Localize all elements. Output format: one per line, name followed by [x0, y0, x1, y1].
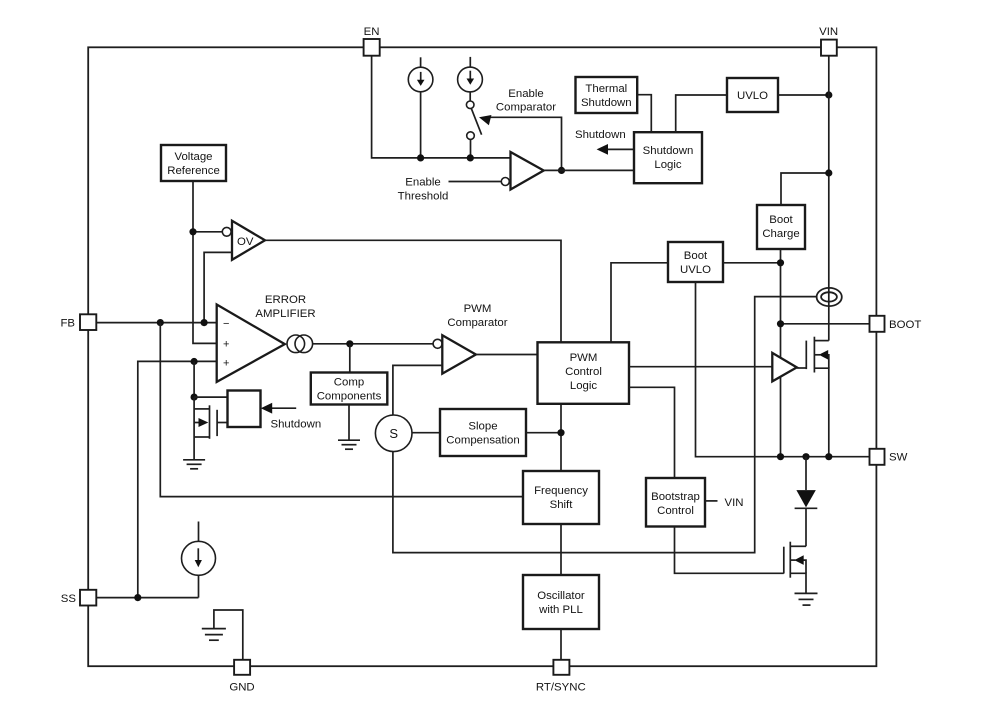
wire bootstrap VIN stub	[705, 500, 718, 502]
svg-text:UVLO: UVLO	[680, 264, 711, 276]
gate driver U4	[772, 353, 797, 382]
thermal shutdown block	[576, 77, 638, 113]
wire S to slope compensation	[412, 432, 440, 434]
svg-text:Charge: Charge	[762, 228, 799, 240]
wire SS current source bottom	[198, 575, 200, 597]
svg-text:Bootstrap: Bootstrap	[651, 491, 700, 503]
label PWM Comparator	[447, 303, 507, 329]
wire boot uvlo to pwm control logic	[611, 263, 668, 343]
wire SS rail to error amp input	[138, 361, 217, 597]
wire SS current source top stub	[198, 522, 200, 542]
switch below I2	[466, 92, 481, 158]
svg-text:Enable: Enable	[508, 88, 543, 100]
wire boot charge top to VIN rail	[781, 173, 829, 205]
wire current source I1 top stub	[420, 57, 422, 67]
svg-text:EN: EN	[364, 26, 380, 38]
wire error amp output to pwm comparator	[313, 343, 434, 345]
svg-text:Comparator: Comparator	[447, 317, 507, 329]
svg-text:RT/SYNC: RT/SYNC	[536, 681, 586, 693]
svg-text:Comparator: Comparator	[496, 101, 556, 113]
wire current source I1 to enable node	[420, 92, 422, 158]
node discharge tap	[191, 394, 198, 401]
wire discharge node to ground	[193, 397, 195, 460]
svg-text:GND: GND	[229, 682, 254, 694]
node enable comparator output	[558, 167, 565, 174]
current source I1	[408, 67, 433, 92]
svg-text:Boot: Boot	[684, 250, 708, 262]
wire boot uvlo down to SW line	[696, 282, 870, 457]
wire UVLO to VIN rail	[778, 94, 829, 96]
node FB freq shift tap	[157, 319, 164, 326]
svg-text:Shutdown: Shutdown	[643, 145, 694, 157]
pin SW	[870, 449, 885, 465]
ground below discharge transistor	[183, 460, 205, 469]
UVLO block	[727, 78, 778, 112]
ground at GND pin	[202, 629, 226, 641]
IC boundary rectangle	[88, 47, 876, 666]
svg-text:Boot: Boot	[769, 214, 793, 226]
svg-text:OV: OV	[237, 236, 254, 248]
svg-text:Enable: Enable	[405, 177, 440, 189]
wire GND pin to ground symbol	[214, 610, 243, 660]
label Enable Comparator	[496, 88, 556, 114]
summing node S	[375, 415, 412, 452]
pin BOOT	[870, 316, 885, 332]
pin EN	[364, 39, 380, 56]
pin RT/SYNC	[553, 660, 569, 675]
node SS pin rail	[134, 594, 141, 601]
wire OV lower input to FB	[204, 252, 232, 322]
svg-text:Control: Control	[565, 366, 602, 378]
node comp components tap	[346, 340, 353, 347]
wire SS tap down to discharge box	[193, 362, 195, 398]
svg-text:Control: Control	[657, 505, 694, 517]
wire S to pwm comparator lower input	[393, 365, 442, 415]
wire shutdown arrow into box	[261, 403, 296, 414]
pin VIN	[821, 40, 837, 56]
wire enable comparator output to shutdown logic	[544, 169, 634, 171]
wire EN pin to enable node	[372, 56, 511, 158]
wire pwm control logic to bootstrap control	[629, 387, 675, 478]
wire oscillator to RT pin	[560, 629, 562, 660]
svg-text:S: S	[389, 426, 398, 441]
comparator U3 PWM	[433, 335, 476, 373]
comp components block	[311, 373, 388, 405]
svg-text:Slope: Slope	[468, 421, 497, 433]
wire OV output to pwm control logic	[265, 240, 561, 342]
node slope comp junction	[557, 429, 564, 436]
node SW diode	[802, 453, 809, 460]
svg-text:Comp: Comp	[334, 377, 364, 389]
oscillator with PLL block	[523, 575, 599, 629]
op-amp U1 error amplifier	[217, 305, 285, 382]
shutdown control box	[228, 391, 261, 428]
node SW sense rail	[825, 453, 832, 460]
slope compensation block	[440, 409, 526, 456]
boot charge block	[757, 205, 805, 249]
wire FB to frequency shift	[160, 323, 523, 497]
svg-text:Oscillator: Oscillator	[537, 590, 585, 602]
comparator OV	[222, 221, 265, 260]
wire pwm control logic to frequency shift	[560, 405, 562, 471]
svg-text:PWM: PWM	[570, 352, 598, 364]
transistor Q3 low side	[784, 542, 806, 594]
svg-text:Shutdown: Shutdown	[581, 97, 632, 109]
transconductance symbol error amp output	[287, 335, 313, 353]
svg-text:Thermal: Thermal	[585, 83, 627, 95]
node switch	[467, 154, 474, 161]
svg-text:SS: SS	[61, 593, 77, 605]
svg-text:Logic: Logic	[570, 380, 598, 392]
label Enable Threshold	[398, 177, 449, 203]
svg-text:UVLO: UVLO	[737, 90, 768, 102]
ground below low side transistor	[795, 593, 818, 605]
svg-text:Logic: Logic	[654, 159, 682, 171]
svg-text:Shift: Shift	[550, 499, 574, 511]
pin SS	[80, 590, 96, 606]
current source I3 soft start	[182, 541, 216, 575]
svg-text:PWM: PWM	[464, 303, 492, 315]
svg-text:FB: FB	[60, 317, 75, 329]
boot UVLO block	[668, 242, 723, 282]
svg-text:Reference: Reference	[167, 165, 220, 177]
svg-text:−: −	[223, 318, 229, 330]
wire enable threshold input	[449, 181, 502, 183]
node UVLO-VIN	[825, 91, 832, 98]
svg-text:Shutdown: Shutdown	[271, 419, 322, 431]
pin SS wire	[96, 597, 199, 599]
pin FB wire	[96, 322, 217, 324]
node SS input tap	[191, 358, 198, 365]
svg-text:ERROR: ERROR	[265, 294, 306, 306]
wire comp components to ground	[348, 405, 350, 441]
wire boot charge rail down to SW	[780, 249, 782, 457]
wire bootstrap control to low side gate	[675, 527, 784, 574]
svg-text:Compensation: Compensation	[446, 435, 519, 447]
diode D1	[795, 457, 818, 547]
wire pwm comparator output	[476, 354, 538, 356]
node boot uvlo rail	[777, 259, 784, 266]
bootstrap control block	[646, 478, 705, 527]
wire vref down to error amp plus input	[193, 181, 217, 343]
svg-text:SW: SW	[889, 452, 908, 464]
node vref OV tap	[189, 228, 196, 235]
node boot charge VIN	[825, 169, 832, 176]
ground below comp components	[338, 440, 360, 449]
svg-text:+: +	[223, 338, 229, 350]
label ERROR AMPLIFIER	[255, 294, 315, 320]
shutdown logic block	[634, 132, 702, 183]
wire BOOT pin	[781, 323, 870, 325]
current sense element	[817, 288, 842, 306]
node SW high side source	[777, 453, 784, 460]
wire VIN rail down to current sense	[828, 56, 830, 341]
pin FB	[80, 314, 96, 330]
wire current source I2 top stub	[469, 57, 471, 67]
node BOOT junction	[777, 320, 784, 327]
frequency shift block	[523, 471, 599, 524]
voltage reference block	[161, 145, 226, 181]
wire enable comparator feedback to switch	[478, 112, 562, 170]
transistor Q1 soft start discharge	[194, 405, 227, 439]
wire vref to OV bubble	[193, 231, 222, 233]
svg-text:BOOT: BOOT	[889, 319, 921, 331]
svg-text:+: +	[223, 358, 229, 370]
wire current sense feedback to S	[393, 297, 817, 553]
wire slope compensation output	[526, 432, 561, 434]
wire discharge node to box	[194, 396, 227, 398]
svg-text:AMPLIFIER: AMPLIFIER	[255, 308, 315, 320]
svg-text:Threshold: Threshold	[398, 191, 449, 203]
wire comp tap down	[349, 344, 351, 373]
PWM control logic block	[538, 342, 630, 404]
wire shutdown arrow	[597, 144, 634, 155]
wire UVLO to shutdown logic	[676, 95, 727, 132]
node I1	[417, 154, 424, 161]
comparator U2 enable	[501, 152, 543, 190]
pin GND	[234, 660, 250, 675]
svg-text:Frequency: Frequency	[534, 485, 588, 497]
wire pwm control logic to gate driver	[629, 366, 772, 368]
node FB OV tap	[201, 319, 208, 326]
svg-text:with PLL: with PLL	[538, 604, 583, 616]
wire thermal shutdown to shutdown logic	[637, 95, 651, 133]
svg-text:Voltage: Voltage	[174, 151, 212, 163]
current source I2	[458, 67, 483, 92]
svg-text:Components: Components	[317, 391, 382, 403]
wire frequency shift to oscillator	[560, 524, 562, 575]
svg-text:VIN: VIN	[725, 497, 744, 509]
wire boot uvlo to boot rail	[723, 262, 781, 264]
svg-text:VIN: VIN	[819, 26, 838, 38]
svg-text:Shutdown: Shutdown	[575, 129, 626, 141]
transistor Q2 high side	[797, 337, 829, 457]
